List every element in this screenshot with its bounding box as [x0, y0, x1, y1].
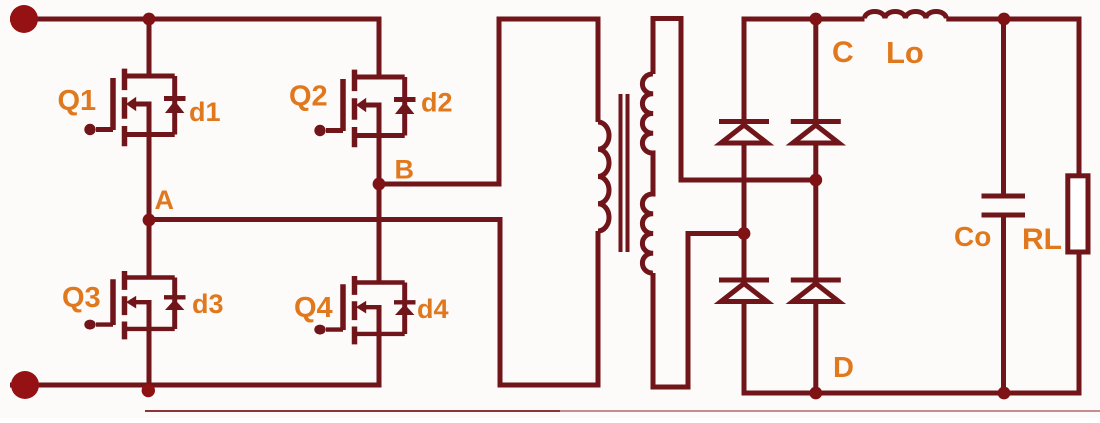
node B: [373, 178, 386, 191]
node Lo output: [998, 13, 1011, 26]
wire rectifier left branch middle: [742, 143, 747, 280]
wire right top rail right of Lo: [946, 19, 1079, 176]
svg-text:Lo: Lo: [886, 35, 924, 70]
wire Co top lead: [1001, 19, 1006, 196]
resistor RL: [1068, 176, 1088, 252]
svg-text:d4: d4: [417, 294, 449, 324]
inductor Lo: [865, 11, 947, 18]
wire rectifier left branch bottom and bottom rail: [744, 252, 1079, 393]
node C top: [809, 13, 822, 26]
transistor Q4: [314, 276, 404, 344]
wire node B to primary top loop: [379, 19, 598, 184]
diode D-lower-right: [791, 280, 841, 302]
transistor Q2: [314, 70, 404, 148]
svg-text:Q1: Q1: [58, 85, 97, 117]
wire bottom-left rail: [10, 334, 379, 385]
diode D-upper-left: [719, 122, 769, 144]
transformer T1 secondary winding: [642, 74, 653, 273]
svg-text:D: D: [833, 352, 854, 384]
svg-text:Q4: Q4: [294, 292, 333, 324]
svg-text:d2: d2: [421, 88, 453, 118]
node secondary top junction: [809, 174, 822, 187]
transformer T1 primary winding: [598, 122, 609, 231]
node Co bottom junction: [998, 387, 1011, 400]
wire Q3 drain: [147, 220, 152, 279]
diode d4: [394, 283, 416, 334]
diode d1: [164, 76, 186, 135]
diode d3: [164, 278, 186, 329]
diode D-upper-right: [791, 122, 841, 144]
wire rectifier right branch top: [813, 19, 818, 122]
wire Q1 source to node A: [147, 135, 152, 221]
wire secondary top hook: [653, 19, 816, 181]
wire node A to primary bottom loop: [149, 220, 598, 386]
wire Q2 source to node B: [377, 136, 382, 185]
wire Q3 source: [147, 329, 152, 385]
input terminal top: [10, 5, 38, 33]
wire Q1 drain: [147, 19, 152, 76]
svg-text:Q3: Q3: [62, 282, 101, 314]
svg-text:Co: Co: [954, 221, 991, 252]
svg-text:A: A: [155, 185, 175, 215]
svg-text:Q2: Q2: [289, 81, 328, 113]
wire node B to Q4 drain: [377, 184, 382, 283]
input terminal bottom: [11, 371, 39, 399]
wire rectifier right branch bottom: [813, 302, 818, 393]
node A: [143, 214, 156, 227]
svg-text:d1: d1: [189, 97, 221, 127]
svg-text:C: C: [832, 36, 854, 69]
wire secondary bottom hook: [653, 234, 744, 388]
transistor Q1: [84, 69, 174, 147]
node Q3 source junction: [142, 384, 155, 397]
transistor Q3: [84, 271, 174, 339]
svg-text:B: B: [395, 155, 415, 185]
svg-text:d3: d3: [192, 289, 224, 319]
thin bottom border line: [145, 410, 560, 412]
capacitor Co: [982, 196, 1026, 215]
node secondary bottom junction: [738, 227, 751, 240]
svg-text:RL: RL: [1022, 223, 1062, 256]
wire Co bottom lead: [1001, 215, 1006, 393]
node Q1 drain junction: [143, 13, 156, 26]
wire right top rail left of Lo: [744, 19, 865, 122]
node D bottom: [809, 387, 822, 400]
diode d2: [394, 77, 416, 136]
diode D-lower-left: [719, 280, 769, 302]
transformer T1 core: [621, 94, 628, 252]
wire rectifier right branch middle: [813, 143, 818, 280]
wire top-left rail: [10, 19, 379, 77]
